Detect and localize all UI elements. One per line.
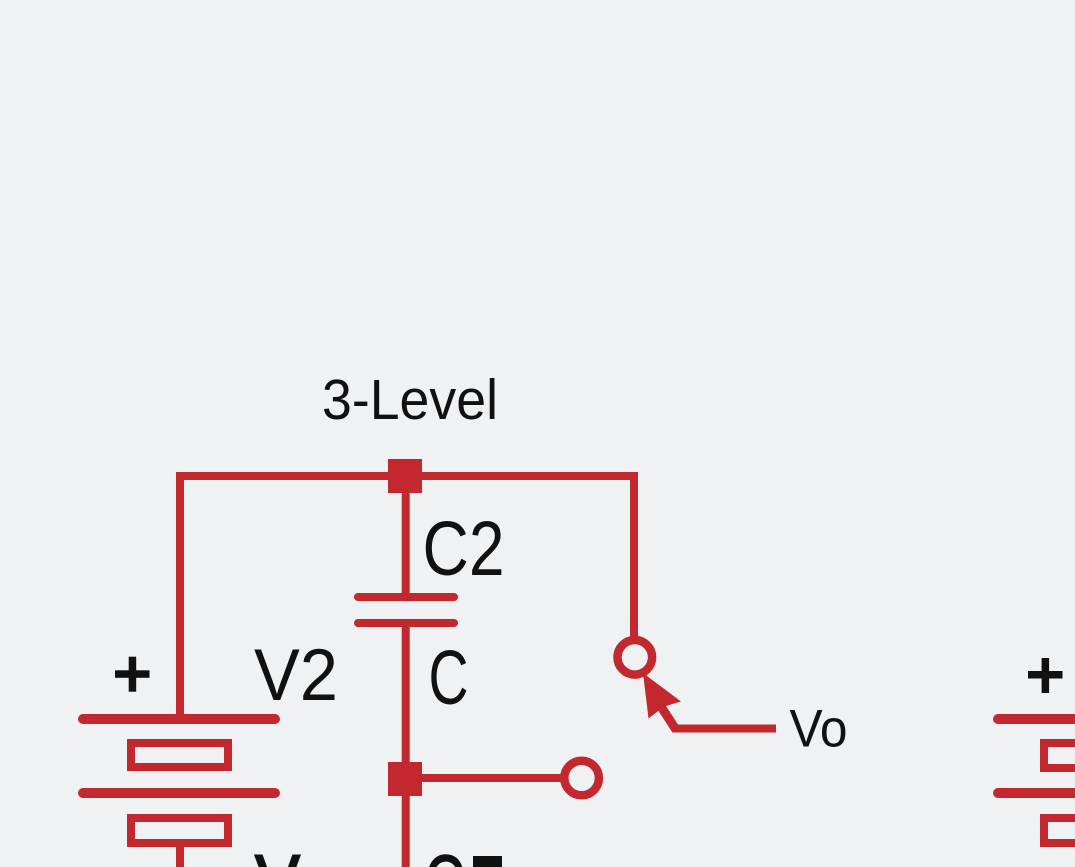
svg-text:3-Level: 3-Level bbox=[322, 368, 498, 432]
svg-text:Vo: Vo bbox=[790, 700, 848, 759]
svg-text:C2: C2 bbox=[423, 506, 505, 592]
svg-text:V: V bbox=[255, 841, 300, 867]
svg-text:C: C bbox=[425, 840, 465, 867]
svg-text:C: C bbox=[429, 635, 469, 721]
svg-text:V2: V2 bbox=[254, 635, 338, 716]
